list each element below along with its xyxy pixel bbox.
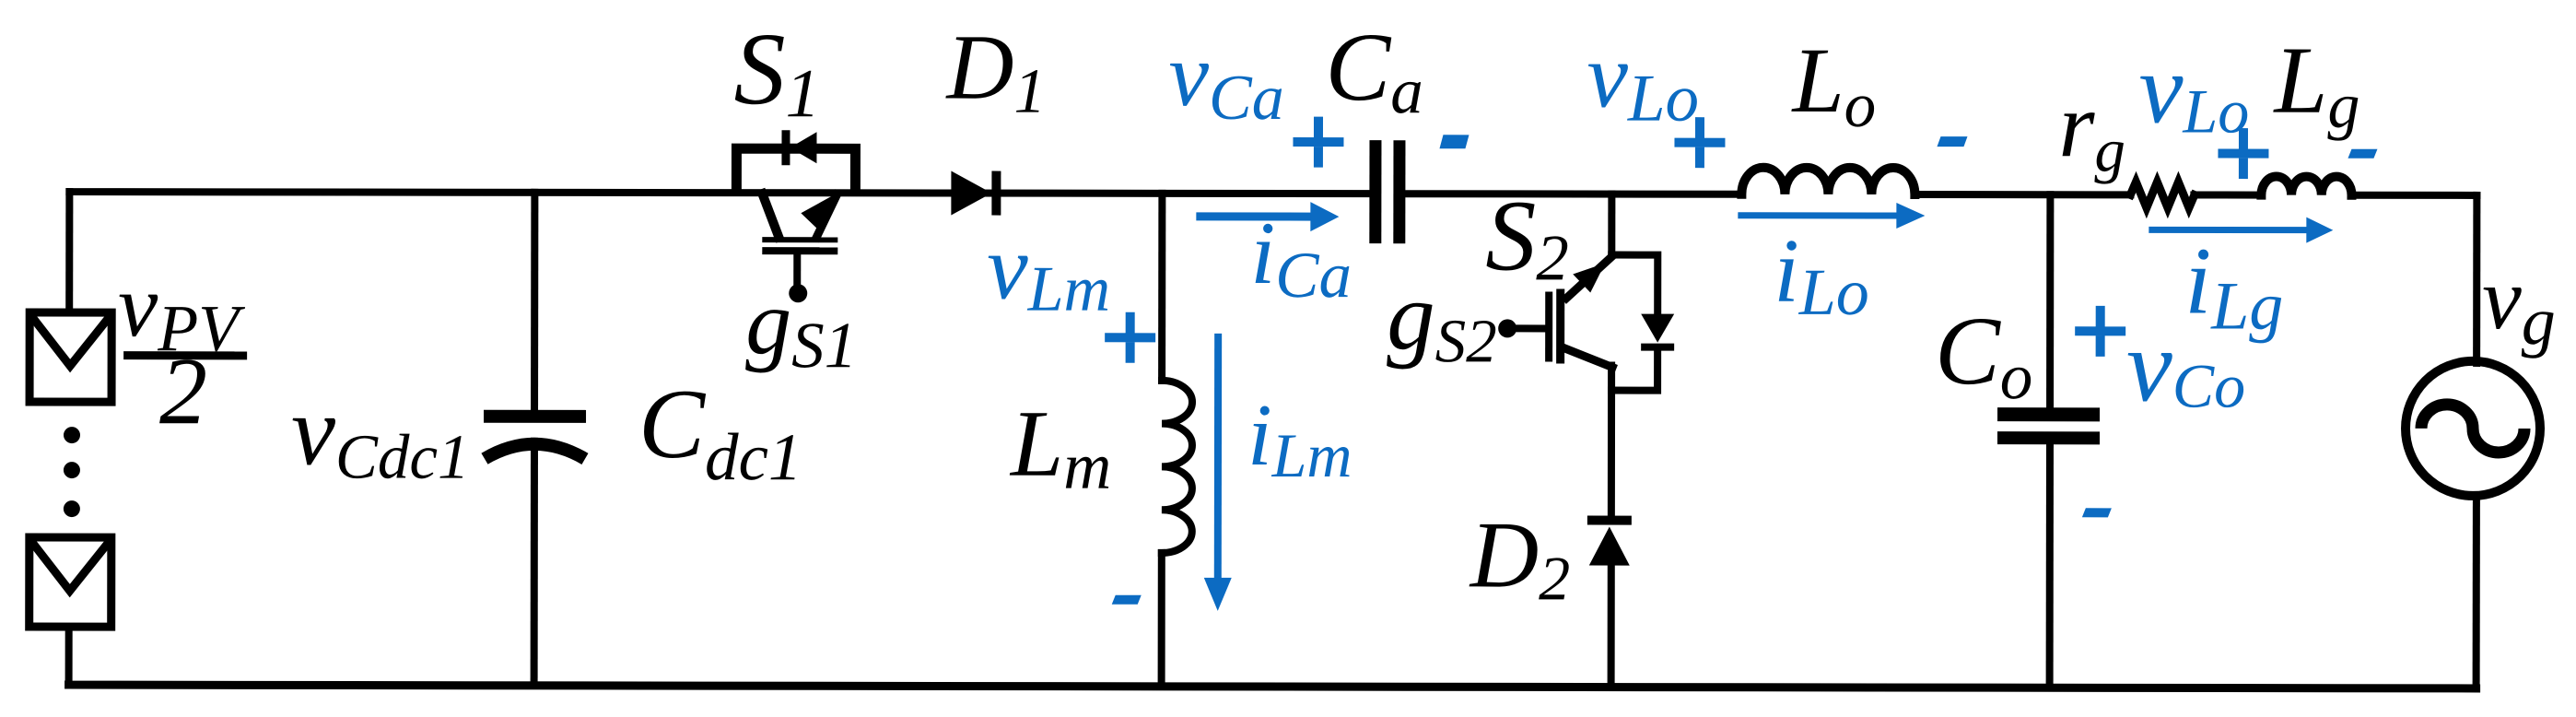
svg-text:vLo: vLo	[2138, 34, 2249, 146]
svg-text:vg: vg	[2482, 249, 2556, 359]
svg-text:vLo: vLo	[1587, 25, 1699, 135]
svg-text:Ca: Ca	[1325, 13, 1423, 127]
svg-text:iLg: iLg	[2184, 228, 2283, 344]
svg-text:D2: D2	[1469, 502, 1571, 613]
svg-text:Lo: Lo	[1790, 29, 1876, 140]
svg-text:Co: Co	[1935, 297, 2032, 413]
svg-text:vCdc1: vCdc1	[291, 376, 470, 491]
svg-text:Lg: Lg	[2272, 28, 2359, 142]
svg-text:iLo: iLo	[1774, 221, 1869, 329]
svg-text:vCa: vCa	[1168, 26, 1283, 134]
svg-text:D1: D1	[945, 15, 1047, 125]
svg-text:S1: S1	[733, 12, 820, 132]
svg-text:rg: rg	[2058, 74, 2125, 184]
svg-text:iLm: iLm	[1247, 385, 1352, 490]
svg-text:Cdc1: Cdc1	[638, 370, 802, 494]
svg-text:Lm: Lm	[1009, 392, 1111, 503]
svg-text:vLm: vLm	[987, 217, 1110, 325]
svg-text:gS2: gS2	[1387, 262, 1497, 375]
